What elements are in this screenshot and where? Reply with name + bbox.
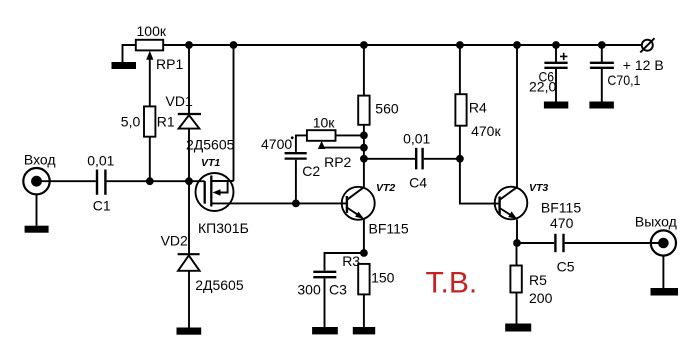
ground (C3) [312,327,338,334]
svg-text:0,01: 0,01 [87,153,114,169]
svg-text:2Д5605: 2Д5605 [195,277,244,293]
node 560 at rail [360,41,368,49]
transistor VT2 (BF115) [342,187,375,220]
svg-text:RP2: RP2 [324,154,351,170]
diode VD2 [178,254,200,271]
node C7 at rail [598,41,606,49]
svg-text:C4: C4 [409,175,427,191]
node VT3 collector at rail [513,41,521,49]
svg-text:22,0: 22,0 [529,79,556,95]
ground (R5) [505,324,531,332]
wire C5 to output connector [565,242,664,244]
wire C4 to R4 node [424,158,460,160]
svg-text:RP1: RP1 [156,56,183,72]
wire node to VT3 base [460,159,500,204]
svg-text:VT3: VT3 [529,182,548,194]
terminal +12V [640,38,654,52]
svg-text:100к: 100к [137,23,167,39]
svg-text:C1: C1 [93,198,111,214]
wire VT1 drain to rail [233,45,235,181]
svg-text:VD1: VD1 [166,93,193,109]
svg-text:470к: 470к [471,123,501,139]
ground (output) [651,288,679,296]
wire VD1/VD2 vertical [188,45,190,328]
wire node to C3 [325,253,364,270]
capacitor C5 [555,234,563,252]
wire node to R5 [516,243,518,266]
wire: +12V top rail [163,44,642,46]
wire node to C4 [364,158,415,160]
svg-text:560: 560 [375,101,399,117]
ground (VD2) [177,328,202,335]
svg-text:BF115: BF115 [541,199,581,215]
svg-text:R5: R5 [529,272,547,288]
ground (C7) [589,102,614,109]
wire rail to VT3 collector [516,45,518,187]
svg-text:Выход: Выход [635,213,677,229]
node R4/C4 junction [456,155,464,163]
wire R4 to C4 node [459,126,461,159]
capacitor C4 [416,148,422,170]
capacitor C3 [313,272,336,277]
output connector Выход [651,230,676,255]
wire R1 to input node [149,137,151,182]
wire RP2 wiper lead [322,147,364,149]
ground (input) [25,226,49,233]
svg-text:C70,1: C70,1 [607,72,640,88]
ground (R3) [353,327,375,334]
svg-text:470: 470 [550,215,574,231]
ground (RP1) [112,62,137,69]
wire RP1 wiper to R1 [149,59,151,106]
ground (C6) [544,102,568,109]
svg-text:R4: R4 [469,100,487,116]
input connector Вход [23,168,49,194]
svg-text:VT2: VT2 [376,182,395,194]
wire R5 to ground [516,293,518,324]
wire C3 to ground [324,278,326,327]
node collector/C4 junction [360,155,368,163]
svg-text:R3: R3 [342,253,360,269]
svg-text:200: 200 [529,290,553,306]
resistor R3 [358,264,369,295]
svg-text:300: 300 [297,281,321,297]
wire output connector stem [662,255,664,288]
label C2 value asterisk [291,136,294,139]
node VD/input junction [185,177,193,185]
resistor 560 [358,96,369,125]
resistor R1 [144,106,155,136]
potentiometer RP2 [307,130,336,149]
diode VD1 [178,114,201,129]
wire rail to 560 resistor [363,45,365,96]
wire VT3 emitter down [516,220,518,244]
node C6 at rail [552,41,560,49]
svg-text:BF115: BF115 [369,221,409,237]
svg-text:2Д5605: 2Д5605 [186,136,235,152]
node RP2 wiper junction [360,144,368,152]
node VD1 at rail [185,41,193,49]
svg-text:4700: 4700 [261,136,292,152]
svg-text:R1: R1 [157,114,175,130]
svg-text:Т.В.: Т.В. [426,266,478,299]
node VT1 drain at rail [230,41,238,49]
wire R3 to ground [363,294,365,327]
wire VT1 source to VT2 base [211,202,347,204]
resistor R4 [455,94,466,126]
svg-text:C5: C5 [557,259,575,275]
svg-text:10к: 10к [313,114,336,130]
capacitor C6 (electrolytic 22,0) [544,45,567,102]
transistor VT3 (BF115) [495,187,528,220]
svg-text:150: 150 [371,270,395,286]
svg-text:C2: C2 [302,163,320,179]
svg-text:VT1: VT1 [201,157,220,169]
wire RP2 right lead [336,134,364,136]
wire input connector stem [36,194,38,226]
capacitor C7 (0,1) [590,45,614,102]
wire C1 to VT1 gate [107,180,205,182]
svg-text:C3: C3 [329,282,347,298]
node emitter/R3/C3 junction [360,249,368,257]
svg-text:5,0: 5,0 [121,113,141,129]
node emitter/R5/C5 junction [513,239,521,247]
potentiometer RP1 [123,40,164,62]
wire C2 to source node [295,160,297,204]
wire input to C1 [37,180,96,182]
node R1/input junction [146,177,154,185]
wire VT2 emitter down [363,219,365,253]
resistor R5 [510,266,521,293]
svg-text:+ 12 В: + 12 В [623,57,664,73]
svg-text:КП301Б: КП301Б [198,220,249,236]
svg-text:Вход: Вход [24,152,56,168]
wire RP2 left lead to C2 [296,135,307,152]
svg-text:0,01: 0,01 [403,131,430,147]
capacitor C2 [285,153,307,158]
node RP2 right lead junction [360,132,368,140]
transistor VT1 (MOSFET КП301Б) [196,173,234,211]
wire node to C5 [517,242,554,244]
wire 560 to VT2 collector [363,125,365,187]
capacitor C1 [97,170,105,195]
node R4 at rail [456,41,464,49]
node C2/source junction [292,200,300,208]
svg-text:VD2: VD2 [161,233,188,249]
wire rail to R4 [459,45,461,94]
